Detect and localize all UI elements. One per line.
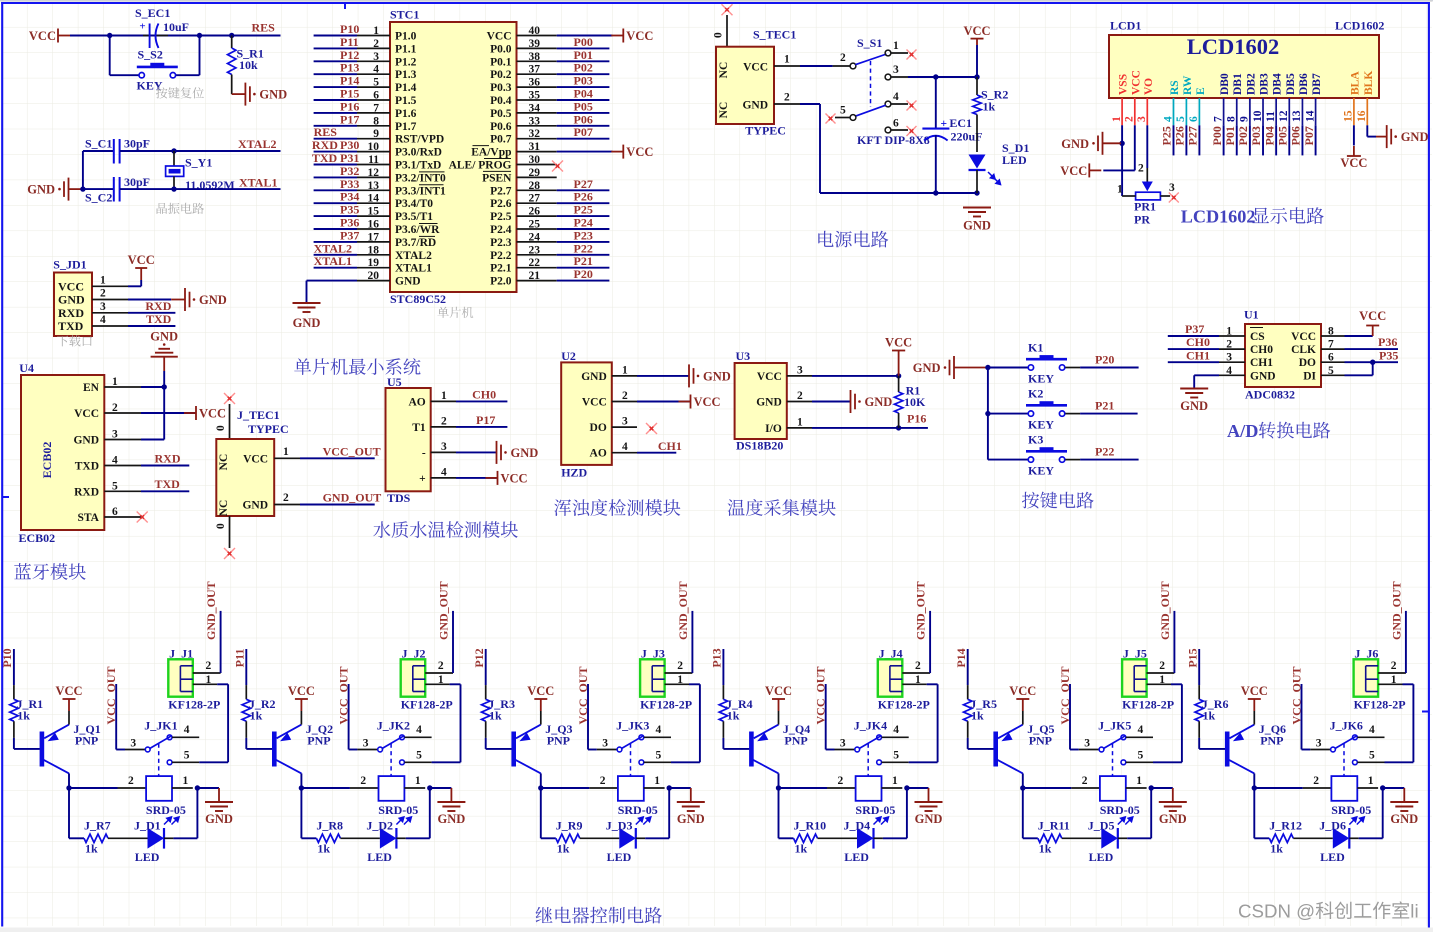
svg-text:GND: GND	[73, 435, 99, 447]
capacitor EC1 220uF	[935, 77, 937, 128]
svg-text:J_R11: J_R11	[1038, 819, 1070, 833]
svg-text:VCC: VCC	[885, 336, 912, 350]
svg-text:GND: GND	[293, 316, 321, 330]
pin 17 STC1 P3.7/RD	[357, 241, 390, 243]
resistor R1 10K	[898, 376, 900, 392]
svg-text:ECB02: ECB02	[19, 531, 56, 545]
svg-text:XTAL2: XTAL2	[395, 250, 432, 262]
svg-text:VCC_OUT: VCC_OUT	[323, 445, 381, 459]
ground GND (relay)	[669, 787, 691, 789]
svg-text:BLK: BLK	[1363, 71, 1375, 95]
wire	[314, 267, 357, 269]
wire GND_OUT	[1405, 611, 1407, 673]
wire	[314, 241, 357, 243]
caption 温度采集模块	[728, 499, 836, 516]
wire	[557, 47, 610, 49]
svg-text:P35: P35	[1379, 348, 1398, 362]
wire BLK to GND	[1366, 125, 1368, 136]
wire pin3 to VCC rail	[908, 76, 977, 78]
svg-text:P0.3: P0.3	[490, 82, 512, 94]
pin 1 J_J	[1147, 683, 1171, 685]
svg-text:1k: 1k	[795, 842, 808, 856]
ground GND (crystal)	[68, 178, 70, 201]
svg-text:KEY: KEY	[1028, 418, 1054, 432]
svg-text:AO: AO	[408, 396, 425, 408]
wire pin5	[909, 761, 938, 763]
svg-text:XTAL1: XTAL1	[395, 263, 432, 275]
svg-text:1: 1	[283, 446, 289, 458]
wire GND_OUT	[929, 611, 931, 673]
svg-text:SRD-05: SRD-05	[1100, 803, 1140, 817]
pin 22 STC1 P2.1	[517, 267, 557, 269]
svg-text:P1.0: P1.0	[395, 31, 417, 43]
ground GND (relay)	[430, 787, 452, 789]
svg-text:4: 4	[622, 441, 628, 453]
wire	[557, 73, 610, 75]
svg-text:J_R8: J_R8	[316, 819, 343, 833]
pin 8 STC1 P1.7	[357, 125, 390, 127]
wire	[967, 649, 969, 685]
node junction XTAL2/S_Y1	[171, 148, 176, 153]
no-ERC mark U2 DO	[646, 423, 657, 434]
svg-text:4: 4	[441, 466, 447, 478]
svg-text:VCC: VCC	[582, 397, 607, 409]
svg-text:2: 2	[100, 288, 106, 300]
svg-text:NC: NC	[718, 62, 730, 79]
svg-text:1k: 1k	[727, 709, 740, 723]
svg-text:GND: GND	[1180, 399, 1208, 413]
svg-text:1k: 1k	[17, 709, 30, 723]
svg-text:34: 34	[529, 102, 541, 114]
svg-text:3: 3	[112, 429, 118, 441]
svg-text:LED: LED	[1089, 850, 1114, 864]
svg-text:P31: P31	[340, 151, 359, 165]
pin 15 STC1 P3.5/T1	[357, 215, 390, 217]
svg-text:GND: GND	[58, 293, 85, 307]
node junction S_C1/S_C2	[80, 186, 85, 191]
svg-text:3: 3	[100, 301, 106, 313]
svg-text:I/O: I/O	[765, 423, 782, 435]
wire pin2 to GND	[128, 299, 171, 301]
wire LED return	[645, 837, 669, 839]
svg-text:NC: NC	[218, 500, 230, 517]
wire	[557, 228, 610, 230]
pin 7 STC1 P1.6	[357, 112, 390, 114]
node junction XTAL1/S_Y1	[171, 186, 176, 191]
power port VCC	[611, 151, 623, 153]
wire LED return	[1127, 837, 1151, 839]
svg-text:11: 11	[368, 154, 379, 166]
svg-text:1k: 1k	[317, 842, 330, 856]
svg-text:DB1: DB1	[1232, 73, 1244, 95]
svg-text:RW: RW	[1182, 75, 1194, 95]
svg-text:GND: GND	[742, 100, 768, 112]
wire VCC_OUT	[1301, 684, 1303, 750]
svg-text:P1.1: P1.1	[395, 43, 417, 55]
svg-text:3: 3	[1226, 352, 1232, 364]
svg-text:LCD1: LCD1	[1110, 19, 1141, 33]
svg-text:VCC: VCC	[963, 24, 990, 38]
svg-text:2: 2	[1226, 339, 1232, 351]
transistor J_Q6 PNP	[1225, 732, 1230, 767]
node junction relay pin1	[195, 785, 200, 790]
wire P22	[1080, 459, 1139, 461]
svg-text:P27: P27	[1186, 126, 1200, 145]
svg-text:6: 6	[893, 118, 899, 130]
relay link dashed	[630, 744, 632, 777]
relay link dashed	[1343, 744, 1345, 777]
wire	[557, 125, 610, 127]
svg-text:S_C2: S_C2	[85, 191, 112, 205]
svg-text:P23: P23	[574, 228, 593, 242]
svg-text:U3: U3	[736, 349, 751, 363]
wire	[541, 787, 590, 789]
relay switch J_JK1	[125, 749, 145, 751]
svg-text:U2: U2	[561, 349, 576, 363]
svg-text:S_EC1: S_EC1	[135, 6, 170, 20]
potentiometer PR1 PR	[1142, 182, 1153, 192]
pin 5 STC1 P1.4	[357, 86, 390, 88]
svg-text:VCC: VCC	[527, 684, 554, 698]
pin 33 STC1 P0.6	[517, 125, 557, 127]
pin 11 STC1 P3.1/TxD	[357, 164, 390, 166]
svg-text:GND: GND	[865, 395, 893, 409]
svg-text:K1: K1	[1028, 340, 1043, 354]
pin 1 J_J	[1378, 683, 1402, 685]
svg-text:17: 17	[368, 231, 380, 243]
crystal S_Y1 11.0592M	[173, 151, 175, 166]
svg-text:P35: P35	[340, 203, 359, 217]
transistor J_Q3 PNP	[511, 732, 516, 767]
svg-text:P2.1: P2.1	[490, 263, 512, 275]
caption 单片机最小系统	[294, 358, 420, 375]
wire	[1173, 125, 1175, 155]
svg-text:J_TEC1: J_TEC1	[237, 408, 280, 422]
svg-text:2: 2	[677, 660, 683, 672]
svg-text:2: 2	[112, 402, 118, 414]
svg-text:TYPEC: TYPEC	[248, 422, 289, 436]
svg-text:P14: P14	[340, 74, 359, 88]
no-ERC mark J_TEC1 top	[224, 393, 235, 404]
svg-text:P0.0: P0.0	[490, 43, 512, 55]
wire CH0	[1168, 348, 1219, 350]
svg-text:2: 2	[840, 52, 846, 64]
svg-text:4: 4	[1369, 724, 1375, 736]
pin 1 S_S1	[885, 50, 891, 56]
resistor J_R2 1k	[245, 685, 247, 699]
svg-text:P2.4: P2.4	[490, 224, 512, 236]
svg-text:P37: P37	[340, 228, 359, 242]
svg-text:5: 5	[1328, 365, 1334, 377]
connector S_TEC1 body	[716, 47, 774, 124]
svg-text:GND: GND	[581, 371, 607, 383]
svg-text:5: 5	[1138, 750, 1144, 762]
caption 按键复位	[156, 87, 204, 98]
node junction relay pin1	[427, 785, 432, 790]
svg-text:5: 5	[656, 750, 662, 762]
svg-text:P00: P00	[574, 35, 593, 49]
resistor S_R2 1k	[976, 77, 978, 95]
svg-text:P12: P12	[340, 48, 359, 62]
svg-text:CS: CS	[1250, 331, 1265, 343]
svg-text:J_R12: J_R12	[1269, 819, 1302, 833]
wire	[1171, 683, 1182, 685]
svg-text:P1.6: P1.6	[395, 108, 417, 120]
svg-text:9: 9	[373, 128, 379, 140]
svg-text:4: 4	[100, 314, 106, 326]
wire	[314, 254, 357, 256]
pin 19 STC1 XTAL1	[357, 267, 390, 269]
wire VCC to RES	[70, 35, 281, 37]
svg-text:GND_OUT: GND_OUT	[1389, 581, 1403, 640]
svg-text:2: 2	[1138, 163, 1144, 175]
svg-text:7: 7	[1212, 116, 1224, 122]
wire	[69, 787, 118, 789]
svg-text:1: 1	[1136, 775, 1142, 787]
wire	[1198, 649, 1200, 685]
IC U5 TDS body	[386, 388, 431, 491]
svg-text:VCC: VCC	[694, 395, 721, 409]
svg-text:6: 6	[1188, 116, 1200, 122]
resistor J_R9 1k	[540, 788, 542, 838]
svg-text:VCC: VCC	[288, 684, 315, 698]
pin 1 J_TEC1 VCC_OUT	[274, 457, 300, 459]
svg-text:GND: GND	[677, 812, 705, 826]
svg-text:VCC: VCC	[1359, 309, 1386, 323]
svg-text:AO: AO	[590, 448, 607, 460]
wire	[557, 151, 613, 153]
pin 0 J_TEC1 bottom	[229, 516, 231, 548]
svg-text:SRD-05: SRD-05	[146, 803, 186, 817]
svg-text:2: 2	[797, 390, 803, 402]
svg-text:VCC: VCC	[743, 62, 768, 74]
ground GND (relay)	[1383, 787, 1405, 789]
relay link dashed	[390, 744, 392, 777]
wire	[314, 47, 357, 49]
wire U1 DI	[1345, 374, 1373, 376]
svg-text:P2.3: P2.3	[490, 237, 512, 249]
svg-text:1k: 1k	[1270, 842, 1283, 856]
svg-text:P26: P26	[574, 190, 593, 204]
wire LED return	[406, 837, 430, 839]
svg-text:RES: RES	[252, 21, 276, 35]
wire	[1301, 125, 1303, 155]
svg-text:RXD: RXD	[74, 486, 99, 498]
pin 12 STC1 P3.2/INT0	[357, 176, 390, 178]
svg-text:DB0: DB0	[1219, 73, 1231, 95]
wire	[557, 86, 610, 88]
svg-text:2: 2	[1391, 660, 1397, 672]
svg-text:P21: P21	[574, 254, 593, 268]
LED J_D1	[148, 828, 165, 849]
caption 晶振电路	[157, 203, 204, 214]
svg-text:28: 28	[529, 180, 541, 192]
svg-text:P07: P07	[1302, 126, 1316, 145]
pin 26 STC1 P2.5	[517, 215, 557, 217]
wire pin5	[432, 761, 461, 763]
IC LCD1 LCD1602 body	[1109, 35, 1379, 98]
svg-text:J_R10: J_R10	[794, 819, 827, 833]
wire U4 GND	[141, 439, 164, 441]
pin 4 S_S1	[885, 101, 891, 107]
svg-text:P30: P30	[340, 138, 359, 152]
wire	[557, 254, 610, 256]
svg-text:1: 1	[1111, 116, 1123, 122]
pin 0 S_TEC1 top	[726, 15, 728, 47]
node junction collector	[66, 785, 71, 790]
svg-text:13: 13	[1291, 110, 1303, 122]
svg-text:10: 10	[1252, 110, 1264, 122]
wire GND pin20	[307, 280, 358, 282]
svg-text:J_JK2: J_JK2	[377, 719, 410, 733]
node junction collector	[299, 785, 304, 790]
svg-text:TXD: TXD	[146, 312, 172, 326]
svg-text:20: 20	[368, 270, 380, 282]
svg-text:P16: P16	[340, 99, 359, 113]
svg-text:RXD: RXD	[312, 138, 338, 152]
wire base	[245, 738, 247, 749]
svg-text:P21: P21	[1095, 399, 1114, 413]
svg-text:P05: P05	[1276, 126, 1290, 145]
sheet border	[0, 0, 1433, 1]
wire LED return	[883, 837, 907, 839]
svg-text:15: 15	[368, 206, 380, 218]
ground GND (U5)	[496, 441, 498, 464]
wire U3 GND	[812, 401, 851, 403]
svg-text:NC: NC	[718, 102, 730, 119]
svg-text:P12: P12	[472, 648, 486, 667]
pin 29 STC1 PSEN	[517, 176, 557, 178]
svg-text:P22: P22	[1095, 445, 1114, 459]
relay switch J_JK5	[1079, 749, 1099, 751]
ground GND (keys)	[953, 356, 955, 379]
svg-text:1: 1	[206, 674, 212, 686]
svg-text:P1.4: P1.4	[395, 82, 417, 94]
wire	[314, 215, 357, 217]
transistor J_Q2 PNP	[272, 732, 277, 767]
node junction collector	[538, 785, 543, 790]
LED J_D6	[1333, 828, 1350, 849]
svg-text:LCD1602: LCD1602	[1335, 19, 1384, 33]
wire CH0	[456, 400, 507, 402]
svg-text:SRD-05: SRD-05	[618, 803, 658, 817]
wire P17	[456, 426, 507, 428]
resistor S_R1 10k	[231, 36, 233, 49]
node junction RES/S_R1	[229, 33, 234, 38]
svg-text:1: 1	[622, 364, 628, 376]
svg-text:GND_OUT: GND_OUT	[914, 581, 928, 640]
svg-text:P0.4: P0.4	[490, 95, 512, 107]
svg-text:3: 3	[1084, 738, 1090, 750]
power port VCC (U4)	[184, 412, 196, 414]
wire	[1023, 787, 1072, 789]
svg-text:J_JK4: J_JK4	[854, 719, 887, 733]
svg-text:TDS: TDS	[387, 491, 411, 505]
svg-text:LED: LED	[1320, 850, 1345, 864]
wire P36	[1345, 348, 1399, 350]
svg-text:LCD1602: LCD1602	[1181, 207, 1256, 227]
svg-text:P33: P33	[340, 177, 359, 191]
svg-text:15: 15	[1343, 110, 1355, 122]
wire U5 VCC	[456, 477, 497, 479]
svg-text:VCC: VCC	[487, 31, 512, 43]
pin 2 J_J	[1378, 672, 1406, 674]
svg-text:GND: GND	[27, 183, 55, 197]
svg-text:16: 16	[1356, 110, 1368, 122]
pin 2 S_S1	[850, 63, 856, 69]
pin 2 STC1 P1.1	[357, 47, 390, 49]
svg-text:0: 0	[215, 425, 227, 431]
svg-text:P15: P15	[340, 87, 359, 101]
relay link dashed	[158, 744, 160, 777]
svg-text:P2.6: P2.6	[490, 198, 512, 210]
capacitor S_C1 30pF	[83, 150, 114, 152]
caption 蓝牙模块	[14, 563, 86, 580]
svg-text:P27: P27	[574, 177, 593, 191]
svg-text:2: 2	[1159, 660, 1165, 672]
svg-text:29: 29	[529, 167, 541, 179]
svg-text:8: 8	[1226, 116, 1238, 122]
node junction R1 bottom	[896, 425, 901, 430]
svg-text:1: 1	[915, 674, 921, 686]
pin 21 STC1 P2.0	[517, 280, 557, 282]
svg-text:27: 27	[529, 193, 541, 205]
wire base	[722, 738, 724, 749]
svg-text:26: 26	[529, 206, 541, 218]
pin 6 STC1 P1.5	[357, 99, 390, 101]
svg-text:GND_OUT: GND_OUT	[323, 491, 382, 505]
svg-text:2: 2	[838, 775, 844, 787]
svg-text:J_R7: J_R7	[84, 819, 111, 833]
svg-text:GND: GND	[913, 361, 941, 375]
svg-text:5: 5	[840, 105, 846, 117]
wire GND_OUT	[220, 611, 222, 673]
svg-text:li: li	[1410, 901, 1418, 922]
wire	[557, 189, 610, 191]
wire	[245, 649, 247, 685]
wire VCC (LCD)	[1134, 125, 1136, 170]
svg-text:1k: 1k	[250, 709, 263, 723]
connector S_JD1 body	[54, 273, 92, 337]
pin 5 S_S1	[850, 115, 856, 121]
svg-text:GND: GND	[1250, 370, 1276, 382]
pin 4 STC1 P1.3	[357, 73, 390, 75]
IC STC1 STC89C52 body	[390, 22, 517, 292]
svg-text:VCC: VCC	[501, 471, 528, 485]
svg-text:P13: P13	[340, 61, 359, 75]
svg-text:1: 1	[1368, 775, 1374, 787]
svg-text:PR: PR	[1134, 213, 1150, 227]
svg-text:6: 6	[373, 90, 379, 102]
pin 35 STC1 P0.4	[517, 99, 557, 101]
svg-text:22: 22	[529, 257, 541, 269]
pin 2 J_J	[902, 672, 930, 674]
pin 25 STC1 P2.4	[517, 228, 557, 230]
svg-text:GND: GND	[259, 88, 287, 102]
svg-text:ALE/ PROG: ALE/ PROG	[449, 160, 512, 172]
resistor J_R7 1k	[68, 788, 70, 838]
svg-text:PNP: PNP	[784, 734, 807, 748]
svg-text:KF128-2P: KF128-2P	[401, 698, 453, 712]
svg-text:GND: GND	[756, 397, 782, 409]
wire P20	[1080, 367, 1139, 369]
svg-text:P20: P20	[1095, 353, 1114, 367]
wire	[557, 99, 610, 101]
wire	[1403, 683, 1414, 685]
ground GND (U2)	[688, 364, 690, 387]
transistor J_Q4 PNP	[749, 732, 754, 767]
svg-text:P3.0/RxD: P3.0/RxD	[395, 147, 442, 159]
